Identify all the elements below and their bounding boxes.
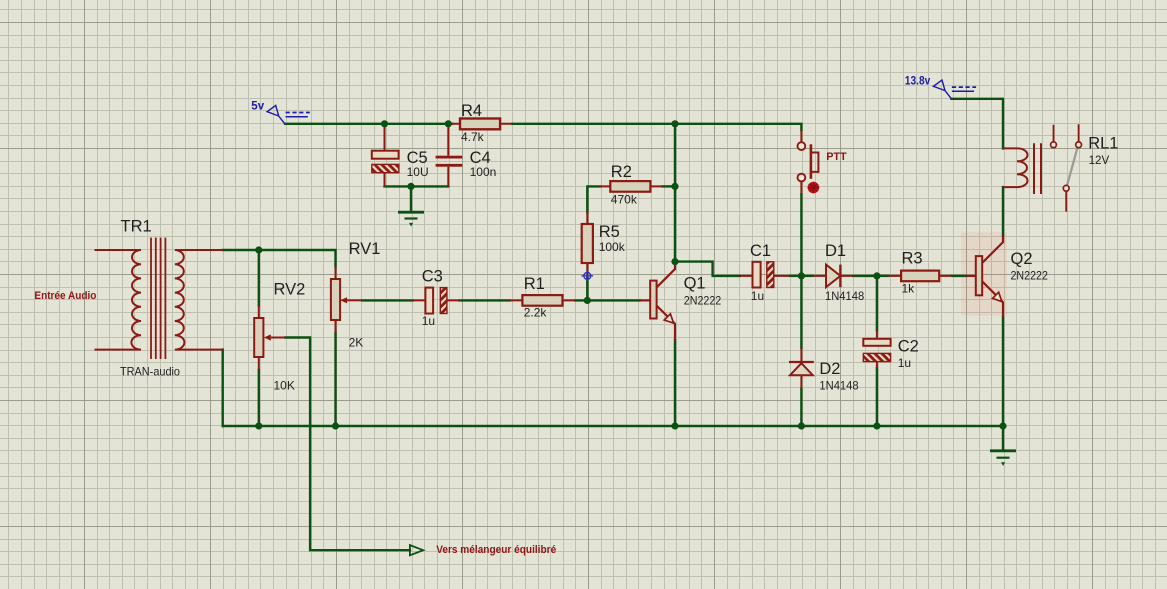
svg-text:R1: R1	[524, 275, 545, 293]
svg-text:13.8v: 13.8v	[905, 76, 931, 88]
wire Q2 emitter to rail	[1002, 317, 1004, 426]
wire RV1 wiper to C3	[362, 299, 413, 301]
pushbutton PTT	[798, 130, 819, 194]
junction D2 bottom	[798, 422, 805, 429]
junction C4 top	[445, 120, 452, 127]
junction D1 / R3 / C2 node	[873, 272, 880, 279]
transistor Q2	[966, 236, 1003, 317]
svg-text:1N4148: 1N4148	[825, 289, 864, 303]
svg-text:RV2: RV2	[274, 281, 306, 299]
wire C3 to R1	[460, 299, 510, 301]
wire TR1 secondary bottom down	[221, 350, 223, 426]
wire mid node down to D2	[800, 276, 802, 348]
wire node to D1	[801, 275, 812, 277]
svg-text:Q2: Q2	[1011, 250, 1033, 268]
ground symbol left	[398, 212, 424, 225]
wire 5v rail right segment to PTT corner	[512, 124, 801, 130]
svg-text:C2: C2	[898, 337, 919, 355]
junction RV2 bottom	[255, 422, 262, 429]
junction PTT / D1 node	[798, 272, 805, 279]
13.8v power flag	[933, 80, 976, 99]
wire D2 anode to bottom rail	[800, 389, 802, 427]
wire Q1 emitter to rail	[674, 340, 676, 426]
svg-text:10K: 10K	[274, 378, 295, 392]
wire RV2 bottom to rail	[258, 370, 260, 426]
resistor R1	[510, 295, 576, 306]
svg-text:1k: 1k	[902, 282, 916, 296]
svg-text:1N4148: 1N4148	[819, 379, 858, 393]
svg-text:R4: R4	[461, 102, 482, 120]
capacitor C5	[372, 127, 399, 187]
wire RV1 bottom to rail	[334, 333, 336, 426]
output arrow to mixer	[410, 545, 423, 555]
diode D1	[813, 265, 854, 288]
svg-text:1u: 1u	[422, 314, 435, 328]
junction RV1 bottom	[332, 422, 339, 429]
wire C2 bottom to rail	[876, 368, 878, 426]
resistor R3	[888, 271, 952, 282]
relay RL1 contacts	[1051, 124, 1082, 212]
wire D1 to node2	[853, 275, 877, 277]
svg-text:4.7k: 4.7k	[461, 130, 485, 144]
wire 13.8v rail	[951, 99, 1003, 149]
svg-text:12V: 12V	[1089, 153, 1110, 167]
svg-text:D1: D1	[825, 242, 846, 260]
resistor R2	[600, 181, 662, 192]
wire RV2 top	[258, 250, 260, 305]
wire C1 to node	[790, 275, 801, 277]
ground symbol right	[990, 451, 1016, 465]
transformer TR1	[95, 238, 223, 359]
svg-text:PTT: PTT	[826, 151, 847, 163]
junction ground tap	[407, 183, 414, 190]
junction R2 right	[671, 183, 678, 190]
svg-text:Entrée Audio: Entrée Audio	[34, 290, 96, 302]
diode D2	[789, 348, 814, 389]
wire R3 to Q2 base	[952, 275, 966, 277]
wire ground stem left	[410, 186, 412, 212]
junction Q1 base node	[584, 297, 591, 304]
svg-text:100n: 100n	[470, 165, 497, 179]
origin marker	[581, 270, 593, 282]
svg-text:TR1: TR1	[121, 217, 152, 235]
capacitor C2	[863, 330, 890, 368]
capacitor C4	[436, 127, 463, 187]
wire TR1 secondary top to RV1	[223, 250, 336, 266]
junction C5 top	[381, 120, 388, 127]
wire Q1 collector to C1	[675, 262, 740, 276]
wire relay coil to Q2 collector	[1002, 187, 1004, 236]
svg-text:10U: 10U	[407, 165, 429, 179]
svg-text:R5: R5	[599, 223, 620, 241]
potentiometer RV2	[254, 305, 285, 369]
5v power flag	[267, 105, 310, 124]
junction Q1 emitter bottom	[671, 422, 678, 429]
wire RV2 wiper to output	[285, 338, 410, 551]
svg-text:RV1: RV1	[349, 240, 381, 258]
svg-text:R2: R2	[611, 163, 632, 181]
junction Q1 collector	[671, 258, 678, 265]
PTT actuator red dot	[808, 182, 820, 194]
selection highlight around Q2	[961, 232, 1007, 316]
junction C2 bottom	[873, 422, 880, 429]
transistor Q1	[640, 262, 675, 341]
svg-text:TRAN-audio: TRAN-audio	[120, 364, 180, 378]
junction ground right	[999, 422, 1006, 429]
wire 5v rail left segment	[285, 123, 452, 125]
wire R4 to Q1 collector column	[674, 124, 676, 262]
svg-text:2K: 2K	[349, 335, 364, 349]
wire R1 to Q1 base	[575, 299, 640, 301]
wire ground stem right	[1002, 426, 1004, 451]
wire C5-C4 ground bus	[385, 185, 449, 187]
capacitor C3	[413, 288, 460, 314]
resistor R5	[582, 212, 593, 275]
potentiometer RV1	[331, 266, 362, 332]
resistor R4	[452, 119, 512, 130]
wire node2 to R3	[877, 275, 889, 277]
svg-text:2N2222: 2N2222	[684, 293, 722, 307]
wire R5 bottom to base node	[586, 277, 588, 301]
wire PTT bottom to mid node	[800, 194, 802, 276]
svg-text:1u: 1u	[751, 289, 764, 303]
wire node2 down to C2	[876, 276, 878, 330]
svg-text:RL1: RL1	[1088, 134, 1118, 152]
svg-text:2.2k: 2.2k	[524, 305, 548, 319]
junction TR1 / RV2 top	[255, 246, 262, 253]
svg-text:C1: C1	[750, 242, 771, 260]
svg-text:C3: C3	[422, 268, 443, 286]
junction rail / Q1 collector column	[671, 120, 678, 127]
svg-text:5v: 5v	[251, 101, 264, 113]
svg-text:2N2222: 2N2222	[1011, 268, 1049, 282]
wire bottom rail	[223, 425, 1003, 427]
wire R2 left to R5 top	[587, 186, 600, 212]
svg-text:D2: D2	[819, 360, 840, 378]
capacitor C1	[740, 262, 790, 288]
svg-text:Q1: Q1	[684, 274, 706, 292]
svg-text:470k: 470k	[611, 193, 638, 207]
svg-text:100k: 100k	[599, 240, 626, 254]
svg-text:Vers mélangeur équilibré: Vers mélangeur équilibré	[436, 544, 556, 556]
svg-text:R3: R3	[902, 250, 923, 268]
svg-text:1u: 1u	[898, 356, 911, 370]
wire R2 right to column	[662, 185, 675, 187]
relay RL1 coil	[1003, 143, 1041, 194]
